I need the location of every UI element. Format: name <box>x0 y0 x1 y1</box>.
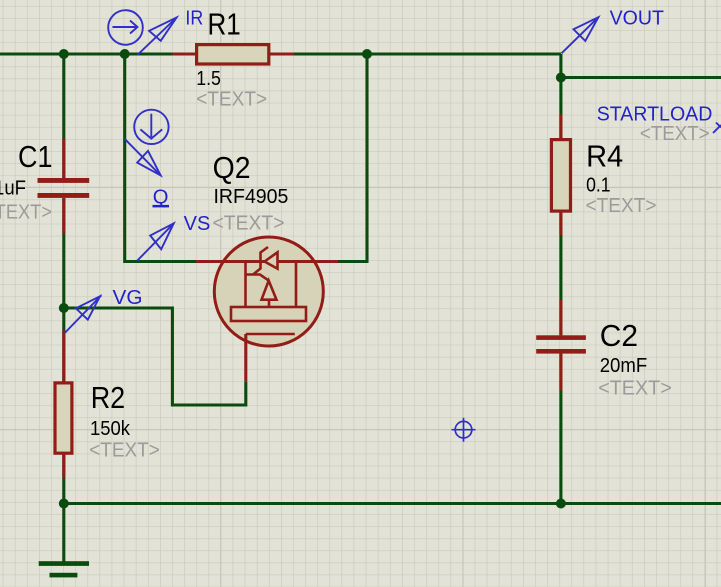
svg-text:R4: R4 <box>586 139 623 174</box>
svg-text:<TEXT>: <TEXT> <box>196 89 267 111</box>
wire red pin stub R4 bottom <box>559 212 562 235</box>
wire red pin stub C2 bottom <box>559 354 562 391</box>
wire red pin stub R2 bottom <box>62 455 65 478</box>
wire red pin stub R2 top <box>62 330 65 381</box>
current probe IR <box>108 10 176 55</box>
wire VG gate path <box>64 308 246 405</box>
svg-text:C2: C2 <box>600 318 638 353</box>
svg-text:<TEXT>: <TEXT> <box>89 440 160 462</box>
svg-text:1.5: 1.5 <box>196 68 221 90</box>
wire right vertical VOUT branch <box>559 54 562 504</box>
wire red Q2 source rail <box>196 260 338 263</box>
svg-text:<TEXT>: <TEXT> <box>586 195 657 217</box>
resistor R1 <box>197 45 269 64</box>
svg-text:VS: VS <box>184 213 211 235</box>
wire red pin stub R1 right <box>270 52 294 55</box>
resistor R2 <box>55 383 72 453</box>
wire red pin stub C1 top <box>62 139 65 178</box>
junction node dots <box>59 49 566 509</box>
wire red Q2 gate stub <box>244 334 247 382</box>
svg-text:<TEXT>: <TEXT> <box>213 213 285 235</box>
wire bottom ground net <box>64 502 721 505</box>
svg-text:IR: IR <box>185 8 203 30</box>
svg-text:<TEXT>: <TEXT> <box>598 378 672 400</box>
wire VS loop <box>125 54 367 262</box>
svg-text:VG: VG <box>113 287 143 309</box>
transistor Q2 internal symbol <box>231 247 306 334</box>
svg-text:R1: R1 <box>208 6 241 41</box>
wire ground stem <box>62 504 65 562</box>
wire red pin stub R4 top <box>559 115 562 140</box>
wire red pin stub C2 top <box>559 300 562 335</box>
wire startload branch <box>561 76 721 79</box>
svg-text:Q2: Q2 <box>213 150 251 185</box>
origin marker <box>452 418 476 442</box>
wire left vertical C1 R2 <box>62 54 65 504</box>
voltage probe VS <box>137 223 174 260</box>
capacitor C2 <box>536 335 586 353</box>
svg-text:0.1: 0.1 <box>586 174 611 196</box>
current probe Q <box>125 110 169 176</box>
svg-text:VOUT: VOUT <box>610 8 664 30</box>
svg-text:150k: 150k <box>90 418 131 440</box>
ground <box>39 561 89 577</box>
wire red pin stub R1 left <box>173 52 197 55</box>
transistor Q2 body circle <box>214 237 323 346</box>
svg-text:IRF4905: IRF4905 <box>214 186 289 208</box>
wire red pin stub C1 bottom <box>62 198 65 234</box>
wire top horizontal net <box>0 52 561 55</box>
probe arrow STARTLOAD edge fragment <box>713 123 721 134</box>
svg-text:R2: R2 <box>91 380 126 415</box>
svg-text:C1: C1 <box>18 139 53 174</box>
svg-text:<TEXT>: <TEXT> <box>0 202 52 224</box>
voltage probe VOUT <box>562 17 599 53</box>
svg-text:1uF: 1uF <box>0 178 26 200</box>
svg-text:<TEXT>: <TEXT> <box>640 123 710 145</box>
svg-text:20mF: 20mF <box>600 355 648 377</box>
resistor R4 <box>551 140 570 212</box>
capacitor C1 <box>38 178 90 198</box>
voltage probe VG <box>65 295 102 333</box>
